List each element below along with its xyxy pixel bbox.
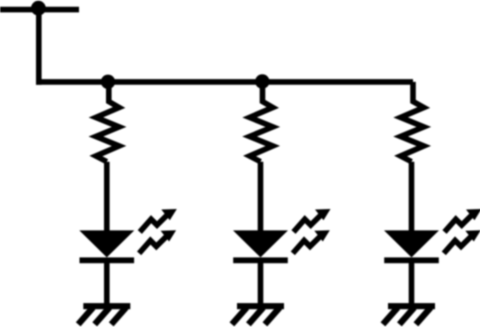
LED D3: light emission arrow 1 (445, 215, 472, 232)
LED D1: cathode bar (80, 257, 135, 263)
wire: R3 to LED D3 anode (409, 162, 415, 231)
wire: R2 to LED D2 anode (258, 162, 264, 231)
LED D3: anode triangle (384, 230, 439, 257)
LED D3: cathode bar (384, 257, 439, 263)
ground symbol 2 (232, 303, 284, 324)
LED D1: light emission arrow 1 (140, 215, 167, 232)
LED D2: light emission arrow 2 (293, 237, 320, 254)
ground symbol 1 (78, 303, 130, 324)
ground symbol 3 (383, 303, 435, 324)
resistor R2 (250, 82, 273, 162)
LED D2: anode triangle (233, 230, 288, 257)
wire: D1 cathode to ground (104, 263, 110, 307)
node: bus junction dot 1 (101, 75, 115, 89)
wire: positive supply rail (top horizontal) (0, 7, 79, 13)
resistor R3 (401, 82, 424, 162)
resistor R1 (96, 82, 119, 162)
LED D2: light emission arrow 1 (294, 215, 321, 232)
LED D1: anode triangle (79, 230, 134, 257)
wire: D3 cathode to ground (409, 263, 415, 307)
node A: supply tap junction dot (31, 1, 46, 16)
wire: horizontal distribution bus (36, 79, 413, 85)
node: bus junction dot 2 (255, 74, 269, 88)
LED D1: light emission arrow 2 (139, 237, 166, 254)
wire: vertical drop from node A to bus (36, 10, 42, 85)
wire: D2 cathode to ground (258, 263, 264, 307)
LED D2: cathode bar (233, 257, 288, 263)
LED D3: light emission arrow 2 (444, 237, 471, 254)
wire: R1 to LED D1 anode (104, 162, 110, 231)
